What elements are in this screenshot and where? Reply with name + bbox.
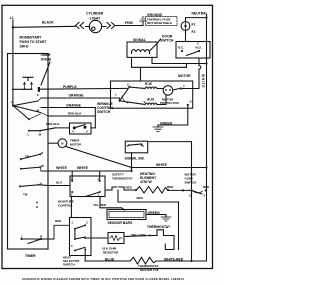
svg-text:WHITE: WHITE — [77, 166, 89, 170]
svg-text:L: L — [21, 235, 23, 239]
svg-text:THERMOSTAT: THERMOSTAT — [147, 225, 171, 229]
svg-text:WHITE-RED: WHITE-RED — [164, 257, 184, 261]
svg-text:PUSH TO START: PUSH TO START — [20, 40, 48, 44]
svg-text:WHITE: WHITE — [56, 166, 68, 170]
svg-text:BLUE: BLUE — [105, 257, 115, 261]
svg-text:M: M — [61, 142, 63, 146]
svg-text:W: W — [39, 133, 42, 137]
svg-text:L: L — [11, 100, 13, 104]
svg-text:RED: RED — [203, 185, 210, 189]
svg-text:THERMOSTAT: THERMOSTAT — [112, 177, 133, 181]
svg-text:PROTECTOR: PROTECTOR — [160, 101, 180, 105]
svg-text:F2: F2 — [192, 30, 196, 34]
svg-text:CYLINDER: CYLINDER — [86, 12, 104, 16]
svg-text:W: W — [41, 164, 44, 168]
svg-text:ORANGE: ORANGE — [66, 104, 82, 108]
svg-text:NOT RESETABLE: NOT RESETABLE — [147, 21, 172, 25]
svg-text:TM: TM — [25, 155, 30, 159]
svg-text:N.C.: N.C. — [178, 46, 184, 50]
svg-text:WHITE: WHITE — [156, 163, 168, 167]
svg-text:GROUND: GROUND — [147, 13, 163, 17]
svg-text:TIMER: TIMER — [25, 254, 36, 258]
svg-text:SWITCH: SWITCH — [160, 39, 174, 43]
svg-text:BLACK: BLACK — [42, 21, 54, 25]
svg-text:WHITE: WHITE — [201, 74, 205, 88]
svg-text:SWITCH: SWITCH — [63, 263, 75, 267]
svg-text:ORANGE: ORANGE — [69, 94, 85, 98]
svg-text:R-W: R-W — [145, 82, 153, 86]
svg-text:PINK: PINK — [125, 21, 134, 25]
svg-text:NEUTRAL: NEUTRAL — [192, 12, 208, 16]
svg-text:RED-BLK: RED-BLK — [68, 112, 82, 116]
svg-text:KNOB: KNOB — [41, 58, 52, 62]
svg-text:V: V — [144, 100, 146, 104]
svg-text:AUX.: AUX. — [147, 98, 155, 102]
svg-text:S: S — [37, 93, 39, 97]
svg-text:RESISTOR: RESISTOR — [103, 251, 119, 255]
svg-text:TIMER: TIMER — [40, 53, 51, 57]
svg-text:YEL-RED: YEL-RED — [93, 203, 107, 207]
svg-text:RED: RED — [137, 196, 144, 200]
svg-text:SIGNAL: SIGNAL — [133, 38, 146, 42]
svg-text:L: L — [28, 133, 30, 137]
svg-text:N.O.: N.O. — [196, 46, 202, 50]
svg-text:RED: RED — [126, 186, 133, 190]
svg-text:GREEN: GREEN — [148, 211, 161, 215]
svg-text:RED: RED — [55, 219, 62, 223]
svg-text:MOTOR: MOTOR — [70, 143, 82, 147]
svg-text:T: T — [183, 85, 185, 89]
svg-text:4750 W: 4750 W — [140, 180, 152, 184]
svg-text:LIGHT: LIGHT — [90, 17, 101, 21]
svg-text:F1: F1 — [192, 23, 196, 27]
svg-text:PURPLE: PURPLE — [63, 85, 77, 89]
svg-text:L1: L1 — [10, 16, 14, 20]
svg-text:SCHEMATIC WIRING DIAGRAM SHOWN: SCHEMATIC WIRING DIAGRAM SHOWN WITH TIME… — [22, 277, 184, 281]
svg-text:BLU: BLU — [56, 181, 62, 185]
svg-text:MOTOR: MOTOR — [178, 74, 191, 78]
svg-text:SWITCH: SWITCH — [185, 181, 197, 185]
svg-text:TM: TM — [23, 193, 28, 197]
svg-text:HEATER 2 W: HEATER 2 W — [140, 268, 158, 272]
svg-text:C: C — [86, 221, 88, 225]
svg-text:SENSOR BARS: SENSOR BARS — [108, 221, 134, 225]
svg-text:YELLOW: YELLOW — [131, 233, 146, 237]
svg-text:SWITCH: SWITCH — [97, 110, 111, 114]
svg-text:RED-BLK: RED-BLK — [46, 122, 60, 126]
svg-text:CONTROL: CONTROL — [58, 204, 73, 208]
svg-text:MOMENTARY: MOMENTARY — [20, 36, 43, 40]
svg-text:RED: RED — [167, 185, 174, 189]
svg-text:SW-D: SW-D — [20, 45, 30, 49]
svg-text:SIGNAL SW.: SIGNAL SW. — [125, 157, 145, 161]
svg-text:GREEN: GREEN — [160, 122, 173, 126]
